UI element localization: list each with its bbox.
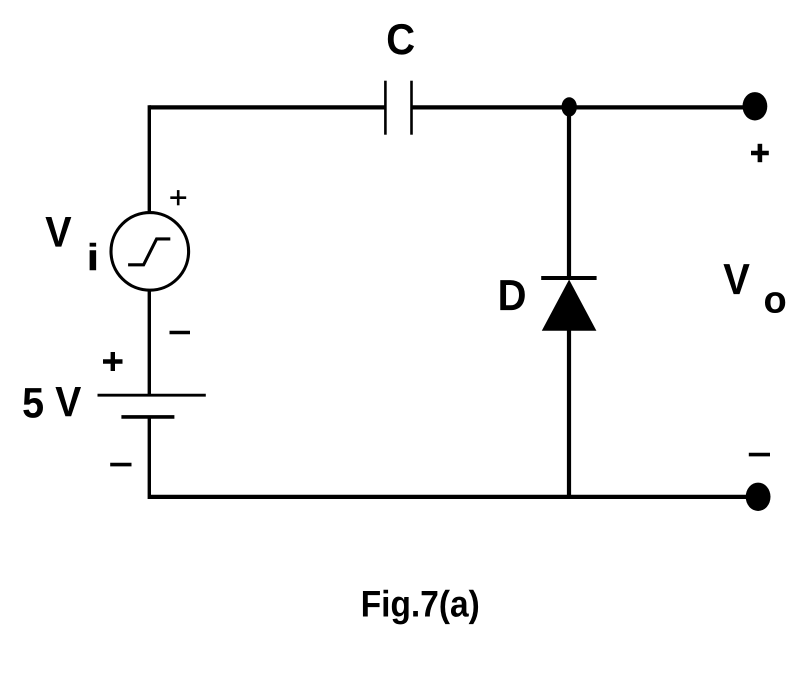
label D [500, 280, 525, 310]
output terminal dot top [743, 92, 768, 120]
output terminal dot bottom [746, 483, 771, 511]
caption Fig.7(a) [363, 591, 380, 616]
wire source to battery [148, 290, 151, 396]
battery 5V long plate [98, 394, 206, 397]
wire left vertical (top corner down to source) [148, 105, 151, 213]
plus sign at source top [170, 196, 186, 199]
minus sign at output bottom [749, 453, 770, 457]
wire battery to bottom rail [148, 417, 151, 499]
battery 5V short plate [121, 415, 174, 419]
wire diode branch upper (junction to diode cathode) [567, 107, 571, 278]
minus sign at battery bottom [110, 463, 131, 467]
minus sign at source bottom [170, 331, 191, 334]
source Vi step waveform symbol [128, 239, 170, 265]
wire top-left (Vi top to capacitor) [149, 105, 386, 109]
diode D triangle (anode, pointing up) [542, 280, 597, 331]
label C [388, 24, 414, 55]
label V of Vo [723, 264, 749, 294]
label i subscript of Vi [90, 243, 97, 271]
source Vi circle [111, 213, 189, 291]
plus sign at output top [751, 151, 769, 156]
diode D cathode bar [541, 276, 596, 280]
label 5 V [23, 388, 43, 418]
label V of Vi [45, 217, 71, 247]
junction node dot [562, 97, 577, 116]
wire diode branch lower (diode anode to bottom rail) [567, 330, 571, 497]
wire bottom rail [149, 495, 755, 499]
wire top-right (capacitor to output + terminal) [411, 105, 756, 109]
capacitor C left plate [384, 81, 387, 135]
plus sign at battery [103, 359, 123, 363]
capacitor C right plate [410, 81, 413, 135]
label o subscript of Vo [765, 292, 785, 313]
